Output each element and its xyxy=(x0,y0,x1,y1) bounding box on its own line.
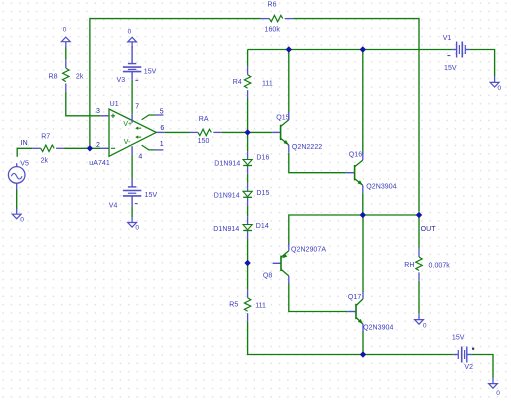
ground below RH xyxy=(415,314,427,330)
svg-text:uA741: uA741 xyxy=(89,160,110,167)
svg-text:3: 3 xyxy=(96,108,100,115)
wire Q16 collector to rail xyxy=(362,50,364,155)
svg-text:D1N914: D1N914 xyxy=(214,160,240,167)
diode D14 xyxy=(213,216,269,239)
wire Q15 collector to rail xyxy=(288,50,290,114)
svg-text:V-: V- xyxy=(124,139,131,146)
wire R8 ground stem xyxy=(65,48,67,60)
svg-text:D16: D16 xyxy=(256,155,269,162)
battery V2 xyxy=(452,335,474,371)
ground above V3 xyxy=(128,29,137,48)
wire V3 to op-amp V+ pin xyxy=(131,80,133,115)
diode D15 xyxy=(214,183,270,206)
wire D14 to Q8 base node xyxy=(247,239,249,263)
svg-text:Q2N3904: Q2N3904 xyxy=(363,324,393,331)
svg-text:Q2N2222: Q2N2222 xyxy=(292,144,322,151)
svg-text:1: 1 xyxy=(160,141,164,148)
wire Q8 base node to R5 xyxy=(247,263,249,289)
svg-text:7: 7 xyxy=(135,104,139,111)
svg-text:Q16: Q16 xyxy=(349,151,362,158)
resistor RA xyxy=(190,116,222,145)
svg-text:Q15: Q15 xyxy=(276,114,289,121)
svg-text:U1: U1 xyxy=(110,101,119,108)
diode D16 xyxy=(214,151,269,174)
wire OUT node to RH xyxy=(418,215,420,249)
svg-text:RA: RA xyxy=(199,116,209,123)
ground below V5 xyxy=(12,208,24,223)
svg-text:5: 5 xyxy=(160,109,164,116)
wire feedback net from inverting input up over R6 to OUT xyxy=(90,19,419,212)
svg-text:OUT: OUT xyxy=(421,226,437,233)
svg-text:111: 111 xyxy=(255,302,266,309)
svg-text:R6: R6 xyxy=(268,1,277,8)
svg-text:V5: V5 xyxy=(20,161,29,168)
wire V5 to IN node xyxy=(17,148,32,157)
wire op-amp V- pin to V4 xyxy=(131,155,133,179)
svg-text:V+: V+ xyxy=(123,121,132,128)
svg-text:0: 0 xyxy=(498,85,502,92)
svg-text:0: 0 xyxy=(63,26,67,33)
svg-text:111: 111 xyxy=(262,81,273,88)
wire Q16 emitter to OUT rail xyxy=(362,193,364,215)
svg-text:D14: D14 xyxy=(256,223,269,230)
resistor R7 xyxy=(32,134,64,165)
svg-text:15V: 15V xyxy=(444,65,457,72)
junction at inverting input node xyxy=(87,145,93,151)
wire RH bottom to ground xyxy=(418,281,420,314)
ground below V4 xyxy=(128,217,140,232)
svg-text:R7: R7 xyxy=(41,134,50,141)
wire Q8 emitter riser and OUT rail xyxy=(289,215,419,245)
svg-text:2: 2 xyxy=(96,142,100,149)
battery V4 xyxy=(109,179,158,210)
junction Q15 collector on V+ rail xyxy=(286,46,292,52)
junction at Q8 base node xyxy=(244,260,250,266)
resistor R6 xyxy=(261,1,293,33)
wire op-amp output to RA xyxy=(165,131,190,133)
svg-text:150: 150 xyxy=(198,138,210,145)
wire Q8 collector to Q17 base xyxy=(289,283,348,312)
svg-text:6: 6 xyxy=(160,125,164,132)
wire V5 bottom to ground xyxy=(16,189,18,209)
svg-text:4: 4 xyxy=(138,154,142,161)
svg-text:0: 0 xyxy=(496,390,500,397)
wire positive supply rail V+ xyxy=(248,50,495,77)
battery V1 xyxy=(443,35,470,72)
wire Q17 collector to OUT rail xyxy=(362,215,364,292)
transistor Q8 xyxy=(263,243,326,284)
svg-text:RH: RH xyxy=(404,262,414,269)
transistor Q17 xyxy=(348,291,394,332)
svg-text:15V: 15V xyxy=(144,68,157,75)
svg-text:Q2N2907A: Q2N2907A xyxy=(291,247,326,254)
svg-text:R8: R8 xyxy=(49,73,58,80)
svg-text:D15: D15 xyxy=(256,190,269,197)
source V5 xyxy=(8,161,29,190)
node OUT xyxy=(421,226,437,233)
resistor R8 xyxy=(49,60,84,92)
svg-text:D1N914: D1N914 xyxy=(213,226,239,233)
ground above R8 xyxy=(61,26,70,47)
op-amp U1 xyxy=(89,101,164,167)
wire R4 top to rail xyxy=(247,50,249,67)
resistor R4 xyxy=(233,66,273,98)
svg-text:V3: V3 xyxy=(117,77,126,84)
wire IN node through junction to inverting input xyxy=(65,147,101,149)
resistor RH xyxy=(404,249,450,281)
svg-text:0.007k: 0.007k xyxy=(429,262,451,269)
svg-text:0: 0 xyxy=(128,29,132,36)
ground right of V2 xyxy=(489,378,501,397)
wire R4 bottom to D16 xyxy=(247,99,249,152)
transistor Q16 xyxy=(346,151,396,193)
svg-text:Q2N3904: Q2N3904 xyxy=(366,183,396,190)
op-amp U1 pin numbers xyxy=(96,104,164,161)
transistor Q15 xyxy=(272,112,322,153)
svg-text:0: 0 xyxy=(423,322,427,329)
wire R8 to non-inverting input xyxy=(66,92,101,116)
svg-text:0: 0 xyxy=(135,225,139,232)
svg-text:0: 0 xyxy=(20,216,24,223)
svg-text:V1: V1 xyxy=(443,35,452,42)
svg-text:15V: 15V xyxy=(452,335,465,342)
svg-text:Q17: Q17 xyxy=(348,294,361,301)
wire Q17 emitter to negative rail xyxy=(362,331,364,355)
wire D15 to D14 xyxy=(247,206,249,217)
junction Q16 collector on V+ rail xyxy=(360,46,366,52)
svg-text:2k: 2k xyxy=(41,158,49,165)
junction Q17 emitter on negative rail xyxy=(360,351,366,357)
svg-text:160k: 160k xyxy=(265,26,281,33)
battery V3 xyxy=(117,46,157,84)
wire RA to Q15 base node xyxy=(222,131,273,133)
svg-text:D1N914: D1N914 xyxy=(214,193,240,200)
svg-text:R5: R5 xyxy=(229,301,238,308)
svg-text:15V: 15V xyxy=(145,192,158,199)
junction Q16 emitter on OUT rail xyxy=(360,212,366,218)
wire V4 to ground xyxy=(131,206,133,217)
svg-text:V4: V4 xyxy=(109,203,118,210)
junction at OUT corner xyxy=(416,212,422,218)
junction at Q15 base node xyxy=(244,129,250,135)
wire D16 to D15 xyxy=(247,174,249,183)
svg-text:V2: V2 xyxy=(464,364,473,371)
svg-text:R4: R4 xyxy=(233,79,242,86)
svg-text:IN: IN xyxy=(21,140,28,147)
node IN xyxy=(21,140,28,147)
svg-text:Q8: Q8 xyxy=(263,273,272,280)
wire R5 bottom to negative rail xyxy=(248,322,454,355)
svg-text:2k: 2k xyxy=(76,74,84,81)
ground right of V1 xyxy=(490,76,501,91)
wire Q15 emitter to Q16 base xyxy=(289,153,346,173)
wire negative rail V2 to ground corner xyxy=(471,355,493,378)
resistor R5 xyxy=(229,289,266,321)
